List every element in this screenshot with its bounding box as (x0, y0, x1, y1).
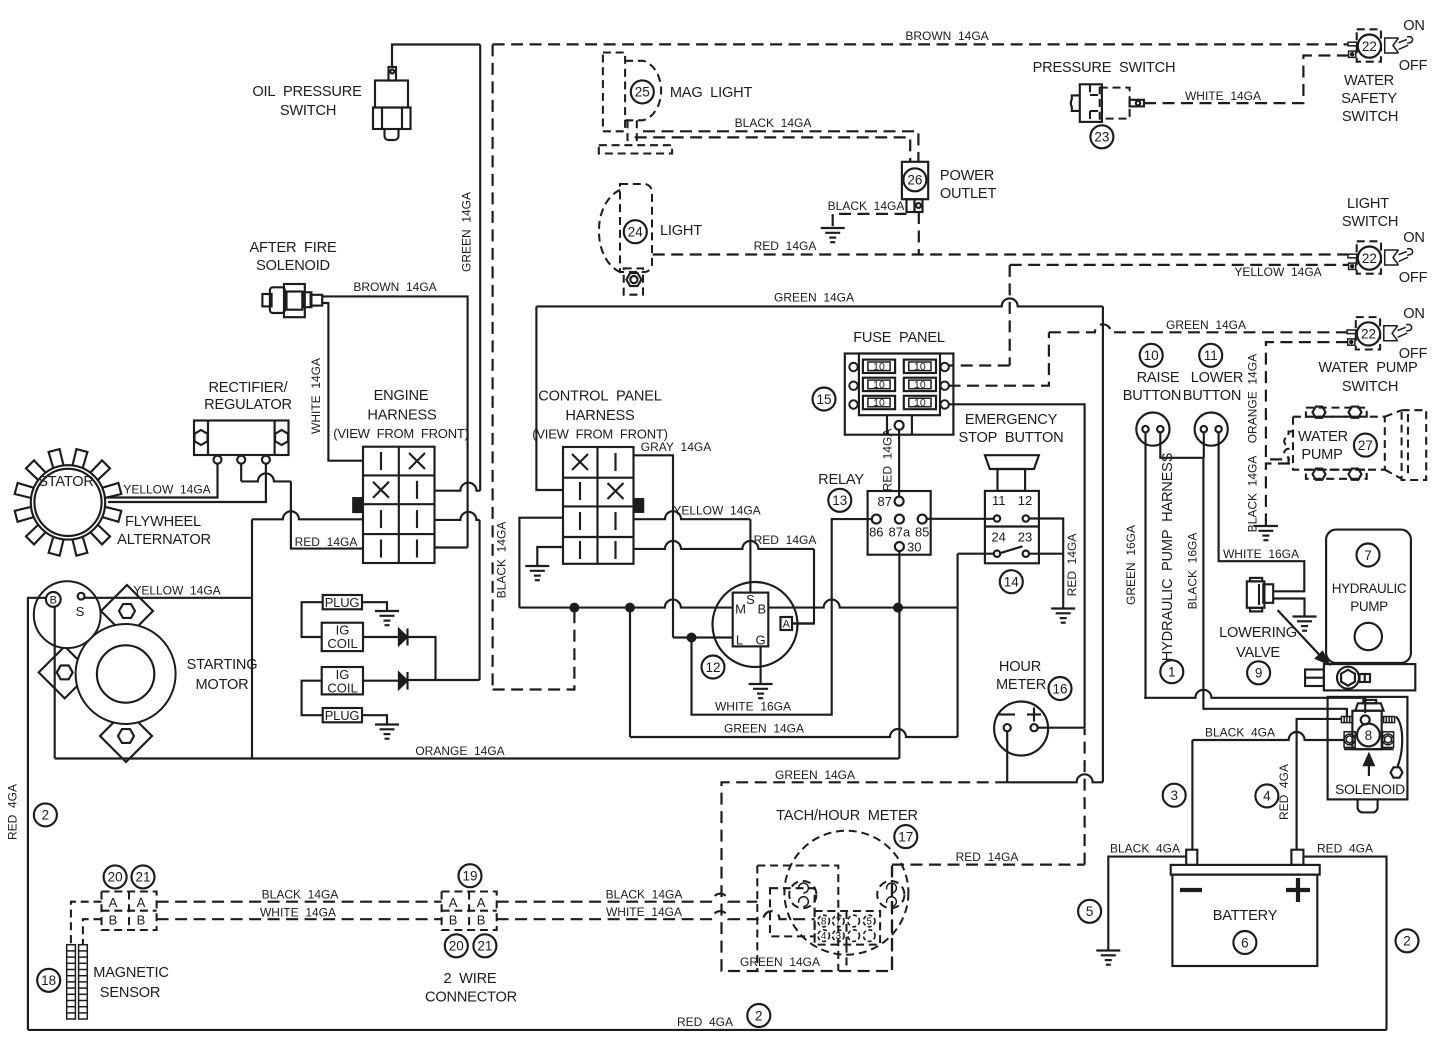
svg-text:EMERGENCY: EMERGENCY (965, 412, 1058, 428)
svg-text:22: 22 (1362, 251, 1377, 266)
power outlet (902, 162, 928, 212)
svg-text:GRAY 14GA: GRAY 14GA (641, 440, 711, 454)
wire brown 14ga dashed top (493, 43, 1348, 45)
callout 11 lower (1199, 344, 1222, 367)
light switch (1348, 241, 1413, 273)
svg-text:STOP BUTTON: STOP BUTTON (959, 430, 1064, 446)
callout 3 (1163, 784, 1186, 807)
svg-text:GREEN 14GA: GREEN 14GA (740, 955, 820, 969)
label flywheel alternator (117, 514, 211, 548)
hour meter (994, 702, 1048, 756)
callout 18 magnetic sensor (37, 969, 60, 992)
wire white 16ga lower button to lowering valve (1219, 432, 1305, 591)
svg-text:ON: ON (1403, 230, 1425, 246)
wire white 14ga to tach meter (497, 911, 815, 919)
svg-text:BUTTON: BUTTON (1183, 388, 1242, 404)
callout 25 mag light (631, 80, 654, 103)
wire relay 30 down to orange junction (898, 551, 900, 758)
2 wire connector left (at magnetic sensor) (102, 892, 157, 931)
svg-text:5: 5 (866, 917, 872, 928)
svg-text:TACH/HOUR METER: TACH/HOUR METER (776, 808, 918, 824)
starting motor (39, 585, 176, 762)
svg-text:18: 18 (41, 973, 56, 988)
label control panel harness (532, 389, 668, 442)
callout 14 emergency stop (1000, 570, 1023, 593)
svg-text:RED 4GA: RED 4GA (1317, 842, 1373, 856)
svg-text:10: 10 (914, 379, 926, 391)
svg-text:RED 14GA: RED 14GA (754, 533, 817, 547)
ground control panel harness (525, 566, 549, 580)
svg-text:3: 3 (1170, 788, 1178, 803)
svg-text:ALTERNATOR: ALTERNATOR (117, 532, 211, 548)
svg-text:BLACK 16GA: BLACK 16GA (1186, 533, 1200, 610)
wire key switch B line to emergency stop (768, 554, 957, 608)
wire red 4ga battery positive to bottom rail (1303, 857, 1386, 1030)
svg-text:4: 4 (821, 931, 827, 942)
wire rectifier T2 to engine harness red 14ga (241, 464, 363, 549)
svg-text:8: 8 (1365, 728, 1373, 743)
control panel harness connector (563, 447, 644, 564)
svg-text:87: 87 (878, 494, 892, 509)
svg-text:BLACK 14GA: BLACK 14GA (606, 888, 683, 902)
svg-text:A: A (477, 895, 486, 910)
diode ig coil 2 (363, 672, 480, 690)
label lowering valve (1219, 625, 1297, 661)
svg-text:WHITE 16GA: WHITE 16GA (1223, 547, 1299, 561)
callout 27 water pump (1354, 434, 1377, 457)
svg-text:COIL: COIL (327, 636, 357, 651)
pressure switch (1071, 84, 1144, 122)
wire dashed to key switch node (493, 612, 575, 690)
label lower button (1183, 370, 1244, 404)
relay (868, 491, 931, 555)
svg-text:23: 23 (1094, 130, 1109, 145)
svg-text:STARTING: STARTING (187, 657, 258, 673)
callout 1 hydraulic pump harness (1160, 660, 1183, 683)
svg-text:FLYWHEEL: FLYWHEEL (125, 514, 201, 530)
emergency stop button (985, 455, 1039, 563)
svg-text:LIGHT: LIGHT (1347, 196, 1389, 212)
svg-text:BLACK 14GA: BLACK 14GA (262, 888, 339, 902)
svg-text:S: S (76, 604, 85, 619)
wire red 14ga fuse to hour meter plus (949, 404, 1085, 727)
svg-text:GREEN 14GA: GREEN 14GA (460, 192, 474, 272)
svg-text:RED 4GA: RED 4GA (1277, 764, 1291, 820)
svg-text:2: 2 (755, 1008, 763, 1023)
svg-text:ORANGE 14GA: ORANGE 14GA (415, 744, 504, 758)
svg-text:L: L (736, 633, 743, 648)
wire engine harness row3-right to ignition coils (435, 512, 480, 680)
wire black 14ga mag light to power outlet (635, 131, 919, 162)
callout 6 battery (1233, 931, 1256, 954)
wire green 16ga raise button to solenoid post (1144, 432, 1365, 713)
svg-text:BLACK 14GA: BLACK 14GA (828, 199, 905, 213)
label engine harness (333, 388, 469, 441)
svg-text:METER: METER (996, 677, 1046, 693)
label water pump (1298, 429, 1348, 463)
label starting motor (187, 657, 258, 693)
wire white 14ga connector to connector (157, 918, 442, 920)
label hydraulic pump (1332, 581, 1407, 614)
wire white 14ga pressure switch to water safety switch (1144, 56, 1349, 104)
callout 7 hydraulic pump (1357, 544, 1380, 567)
svg-text:BLACK 4GA: BLACK 4GA (1205, 726, 1275, 740)
wire red 14ga light to light switch (653, 253, 1348, 255)
lower button (1195, 413, 1228, 446)
svg-text:HARNESS: HARNESS (565, 408, 635, 424)
svg-text:WHITE 16GA: WHITE 16GA (715, 700, 791, 714)
svg-text:ON: ON (1403, 18, 1425, 34)
wire white 14ga to engine harness (322, 303, 363, 461)
svg-text:11: 11 (1204, 348, 1218, 363)
svg-text:GREEN 14GA: GREEN 14GA (724, 722, 804, 736)
wire red 14ga fuse to relay 87 (898, 430, 900, 497)
svg-text:FUSE PANEL: FUSE PANEL (853, 330, 945, 346)
svg-text:30: 30 (907, 540, 921, 555)
svg-text:GREEN 16GA: GREEN 16GA (1124, 525, 1138, 605)
svg-text:HARNESS: HARNESS (367, 408, 437, 424)
svg-text:CONTROL PANEL: CONTROL PANEL (538, 389, 662, 405)
label power outlet (940, 168, 997, 202)
svg-text:BROWN 14GA: BROWN 14GA (905, 29, 988, 43)
svg-text:5: 5 (1086, 904, 1094, 919)
svg-text:27: 27 (1358, 438, 1373, 453)
label rectifier regulator (204, 380, 292, 413)
battery (1171, 850, 1320, 966)
wire lowering valve to ground (1273, 599, 1304, 617)
label magnetic sensor (93, 965, 168, 1001)
svg-text:WHITE 14GA: WHITE 14GA (1185, 89, 1261, 103)
wire plug1 to ground (362, 602, 387, 611)
wire yellow 14ga to key switch S (634, 511, 751, 592)
arrow lowering valve to pump port (1278, 610, 1330, 664)
svg-text:23: 23 (1018, 530, 1032, 545)
key switch A terminal box (781, 617, 815, 631)
wire black 4ga battery negative to solenoid (1192, 732, 1344, 850)
svg-text:7: 7 (1364, 548, 1372, 563)
svg-text:2: 2 (42, 808, 50, 823)
svg-text:BATTERY: BATTERY (1213, 908, 1278, 924)
rectifier regulator (194, 421, 289, 464)
wire red 4ga battery positive to solenoid (1297, 719, 1342, 850)
relay pin labels (869, 494, 929, 555)
key switch ignition (713, 582, 798, 667)
ground plug 1 (375, 611, 399, 625)
wire stator to rectifier T3 (108, 464, 266, 502)
hydraulic pump base (1305, 664, 1415, 690)
svg-text:RED 14GA: RED 14GA (956, 850, 1019, 864)
oil pressure switch (373, 67, 411, 140)
ground plug 2 (375, 725, 399, 739)
wire black 14ga water pump to ground (1266, 464, 1290, 527)
svg-text:SAFETY: SAFETY (1341, 91, 1397, 107)
svg-text:PUMP: PUMP (1350, 599, 1388, 614)
callout 26 power outlet (903, 168, 926, 191)
svg-text:17: 17 (898, 829, 913, 844)
wire emergency stop 24 (958, 553, 994, 555)
svg-text:SOLENOID: SOLENOID (1335, 781, 1405, 797)
wire black 14ga power outlet to ground (833, 214, 907, 228)
svg-text:BUTTON: BUTTON (1123, 388, 1182, 404)
svg-text:LOWER: LOWER (1191, 370, 1244, 386)
svg-text:YELLOW 14GA: YELLOW 14GA (1234, 265, 1321, 279)
svg-text:B: B (109, 913, 118, 928)
wire plug2 to ground (362, 715, 387, 724)
wire engine harness row4-right to brown riser (435, 546, 468, 548)
svg-text:WHITE 14GA: WHITE 14GA (606, 905, 682, 919)
ground emergency stop (1051, 609, 1075, 623)
svg-text:BROWN 14GA: BROWN 14GA (353, 280, 436, 294)
svg-text:12: 12 (705, 660, 720, 675)
junction dot L line (687, 633, 697, 643)
svg-text:25: 25 (635, 85, 650, 100)
callout 10 raise (1140, 344, 1163, 367)
wire plug1 to ig coil1 left (302, 602, 323, 637)
svg-text:RED 14GA: RED 14GA (295, 535, 358, 549)
label after fire solenoid (250, 240, 337, 274)
svg-text:22: 22 (1361, 327, 1376, 342)
callout 15 fuse panel (813, 388, 836, 411)
svg-text:LOWERING: LOWERING (1219, 625, 1297, 641)
svg-text:11: 11 (992, 493, 1006, 508)
label oil pressure switch (252, 84, 362, 119)
svg-text:SOLENOID: SOLENOID (256, 258, 330, 274)
label raise button (1123, 370, 1182, 404)
svg-text:9: 9 (1255, 666, 1263, 681)
svg-text:BLACK 14GA: BLACK 14GA (1246, 456, 1260, 533)
svg-text:A: A (783, 619, 791, 631)
svg-text:2: 2 (1403, 934, 1411, 949)
wire key switch G to ground (760, 646, 762, 684)
ignition coil 2 (322, 667, 363, 696)
svg-text:SENSOR: SENSOR (100, 985, 160, 1001)
wire engine harness row3-left to starting motor S yellow 14ga (252, 511, 363, 758)
svg-text:7: 7 (836, 917, 842, 928)
wire hour meter minus (1007, 731, 1103, 782)
svg-text:RED 14GA: RED 14GA (754, 239, 817, 253)
water safety switch (1348, 29, 1413, 61)
wire starting motor S yellow 14ga (85, 597, 253, 599)
svg-text:RED 14GA: RED 14GA (1065, 534, 1079, 597)
svg-text:OUTLET: OUTLET (940, 186, 997, 202)
control panel enclosure wire green 14ga (536, 298, 1103, 782)
callout 20 21 right connector (445, 934, 468, 957)
svg-text:22: 22 (1362, 39, 1377, 54)
label 2 wire connector (425, 971, 517, 1006)
svg-text:PLUG: PLUG (325, 595, 360, 610)
svg-text:2 WIRE: 2 WIRE (444, 971, 497, 987)
svg-text:BLACK 4GA: BLACK 4GA (1110, 842, 1180, 856)
svg-text:BLACK 14GA: BLACK 14GA (735, 116, 812, 130)
svg-text:AFTER FIRE: AFTER FIRE (250, 240, 337, 256)
svg-text:OFF: OFF (1399, 58, 1428, 74)
ignition coil 1 (322, 623, 363, 652)
svg-text:RELAY: RELAY (818, 472, 864, 488)
svg-text:RED 4GA: RED 4GA (6, 784, 20, 840)
svg-text:REGULATOR: REGULATOR (204, 397, 292, 413)
callout 20 21 left connector (104, 865, 127, 888)
svg-text:10: 10 (914, 361, 926, 373)
diode ig coil 1 (363, 629, 436, 681)
svg-text:MAG LIGHT: MAG LIGHT (670, 85, 753, 101)
svg-text:GREEN 14GA: GREEN 14GA (775, 768, 855, 782)
svg-text:PLUG: PLUG (325, 708, 360, 723)
svg-text:HYDRAULIC: HYDRAULIC (1332, 581, 1407, 596)
spark plug 1 (323, 595, 362, 610)
svg-text:SWITCH: SWITCH (1342, 379, 1398, 395)
svg-text:HOUR: HOUR (999, 659, 1041, 675)
svg-text:ENGINE: ENGINE (374, 388, 429, 404)
water pump switch (1347, 317, 1412, 349)
svg-text:24: 24 (628, 225, 644, 240)
svg-text:16: 16 (1052, 681, 1067, 696)
wire magnetic sensor leads (71, 902, 102, 945)
svg-text:PRESSURE SWITCH: PRESSURE SWITCH (1033, 60, 1176, 76)
svg-text:10: 10 (873, 361, 885, 373)
svg-text:B: B (757, 602, 766, 617)
callout 2 left (34, 803, 57, 826)
svg-text:SWITCH: SWITCH (1342, 109, 1398, 125)
ground lowering valve (1293, 617, 1317, 631)
svg-text:STATOR: STATOR (38, 474, 94, 490)
svg-text:10: 10 (873, 397, 885, 409)
svg-text:1: 1 (1168, 665, 1176, 680)
fuse panel (845, 354, 954, 435)
svg-text:MAGNETIC: MAGNETIC (93, 965, 168, 981)
svg-text:VALVE: VALVE (1236, 645, 1280, 661)
svg-text:YELLOW 14GA: YELLOW 14GA (673, 504, 760, 518)
svg-text:GREEN 14GA: GREEN 14GA (774, 291, 854, 305)
svg-text:86: 86 (869, 525, 883, 540)
wire black 14ga to tach meter (497, 894, 758, 902)
wire black 4ga battery to ground (1108, 857, 1186, 951)
ground key switch (749, 684, 773, 698)
callout 5 ground (1078, 900, 1101, 923)
svg-text:6: 6 (1241, 935, 1249, 950)
callout 12 key switch (702, 656, 725, 679)
svg-text:BLACK 14GA: BLACK 14GA (495, 522, 509, 599)
svg-text:ON: ON (1403, 306, 1425, 322)
svg-text:MOTOR: MOTOR (195, 677, 248, 693)
tach hour meter assembly (722, 782, 1008, 971)
svg-text:87a: 87a (889, 525, 911, 540)
svg-text:POWER: POWER (940, 168, 994, 184)
svg-text:B: B (477, 913, 486, 928)
wire key switch L (673, 636, 733, 638)
wire emergency stop 12 23 to ground red 14ga (1029, 519, 1063, 609)
callout 24 light (624, 220, 647, 243)
wire starting motor B down to orange 14ga (54, 607, 56, 759)
label emergency stop button (959, 412, 1064, 446)
svg-text:A: A (449, 895, 458, 910)
svg-text:G: G (755, 633, 765, 648)
svg-text:26: 26 (907, 173, 922, 188)
svg-text:WATER PUMP: WATER PUMP (1318, 360, 1417, 376)
svg-text:OIL PRESSURE: OIL PRESSURE (252, 84, 362, 100)
starter solenoid B S terminals (34, 581, 101, 648)
wire key switch M line (519, 518, 732, 608)
spark plug 2 (323, 708, 362, 723)
wire orange 14ga water pump switch to water pump (1266, 342, 1348, 459)
callout 4 (1255, 784, 1278, 807)
wire power outlet to red 14ga (918, 212, 920, 255)
svg-text:4: 4 (1263, 789, 1271, 804)
svg-text:20: 20 (449, 939, 464, 954)
wire relay 85 to emergency stop 11 (927, 518, 994, 520)
svg-text:(VIEW FROM FRONT): (VIEW FROM FRONT) (333, 426, 469, 441)
wire white 16ga key switch L to relay 86 (692, 519, 873, 715)
svg-text:13: 13 (832, 493, 847, 508)
svg-text:GREEN 14GA: GREEN 14GA (1166, 318, 1246, 332)
ground battery negative (1096, 951, 1120, 965)
svg-text:YELLOW 14GA: YELLOW 14GA (133, 584, 220, 598)
wire gray 14ga (634, 455, 674, 637)
svg-text:SWITCH: SWITCH (1342, 214, 1398, 230)
svg-text:10: 10 (1144, 348, 1159, 363)
svg-text:3: 3 (836, 931, 842, 942)
svg-text:PUMP: PUMP (1301, 447, 1342, 463)
svg-text:WATER: WATER (1298, 429, 1348, 445)
2 wire connector right (442, 892, 497, 931)
svg-text:COIL: COIL (327, 681, 357, 696)
engine harness connector (353, 447, 435, 563)
wire black 16ga lower button to solenoid (1160, 432, 1347, 716)
hydraulic pump (1326, 530, 1411, 663)
svg-text:ORANGE 14GA: ORANGE 14GA (1246, 354, 1260, 443)
callout 13 relay (828, 489, 851, 512)
callout 23 pressure switch (1090, 125, 1113, 148)
svg-text:M: M (735, 602, 746, 617)
svg-text:85: 85 (915, 525, 929, 540)
wire yellow 14ga light switch (949, 265, 1349, 366)
wire black 14ga connector to connector (157, 901, 442, 903)
wire engine harness row2-right green hop (435, 483, 481, 491)
wire orange 14ga (55, 757, 899, 759)
junction node dots on M/B line (569, 603, 579, 613)
svg-text:A: A (109, 895, 118, 910)
label hour meter (996, 659, 1046, 693)
svg-text:RAISE: RAISE (1137, 370, 1180, 386)
svg-text:LIGHT: LIGHT (660, 223, 702, 239)
svg-text:WHITE 14GA: WHITE 14GA (260, 906, 336, 920)
svg-text:10: 10 (873, 379, 885, 391)
callout 2 right (1396, 929, 1419, 952)
ground water pump (1254, 526, 1278, 540)
wire red 14ga to key switch A (634, 541, 815, 624)
svg-text:8: 8 (821, 917, 827, 928)
svg-text:B: B (50, 595, 57, 607)
svg-text:SWITCH: SWITCH (280, 103, 336, 119)
svg-text:21: 21 (477, 939, 492, 954)
svg-text:24: 24 (991, 530, 1005, 545)
solenoid (1328, 697, 1408, 813)
wire green 14ga from oil pressure switch (392, 45, 480, 491)
svg-text:CONNECTOR: CONNECTOR (425, 990, 517, 1006)
wire ig coil2 to plug2 left (302, 681, 323, 716)
callout 2 bottom (747, 1004, 770, 1027)
wire yellow 14ga stator to rectifier T1 (106, 464, 218, 498)
mag light (599, 53, 672, 154)
svg-text:RED 14GA: RED 14GA (881, 429, 895, 492)
wire starting motor B to red 4ga left rail (28, 598, 46, 1030)
wire green 14ga water pump switch (949, 324, 1348, 385)
wire red 4ga bottom rail (28, 1029, 1387, 1031)
water pump (1284, 407, 1426, 480)
callout 17 tach hour meter (894, 825, 917, 848)
svg-text:21: 21 (135, 870, 150, 885)
svg-text:B: B (137, 913, 146, 928)
svg-text:YELLOW 14GA: YELLOW 14GA (123, 483, 210, 497)
